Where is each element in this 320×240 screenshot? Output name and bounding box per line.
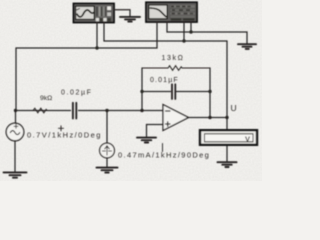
ground (scope) — [120, 17, 140, 22]
wire bus A (input node bus) — [16, 22, 157, 48]
wire scope channel B down — [103, 23, 105, 42]
ground (voltmeter) — [218, 162, 237, 167]
ground (V1) — [4, 172, 27, 177]
svg-text:0.47mA/1kHz/90Deg: 0.47mA/1kHz/90Deg — [118, 151, 210, 160]
wire left column down — [15, 48, 17, 111]
ground (op-amp plus input) — [137, 138, 156, 143]
wire main input row — [16, 110, 164, 112]
svg-text:0.01µF: 0.01µF — [150, 77, 179, 84]
wire feedback right column — [209, 68, 211, 118]
wire scope channel A down — [96, 23, 98, 49]
ground (top right) — [238, 44, 256, 49]
wire output column (node U) — [226, 41, 228, 131]
resistor R1 9k zigzag — [33, 108, 47, 113]
wire V1 to ground — [14, 141, 16, 172]
wire bode OUT- drop — [190, 22, 192, 32]
wire feedback left column — [141, 68, 143, 111]
wire to current source I1 — [106, 111, 108, 144]
node junction (output to voltmeter) — [225, 116, 228, 119]
resistor R2 13k zigzag (feedback top branch) — [142, 66, 210, 71]
capacitor C2 0.01uF plates — [172, 84, 175, 99]
node junction (scope A on bus A) — [95, 46, 98, 49]
node junction (feedback left on input wire) — [140, 109, 143, 112]
svg-text:V: V — [245, 135, 250, 144]
plus mark near label — [59, 126, 64, 131]
wire op-amp plus input — [147, 124, 164, 126]
wire I1 to ground — [106, 158, 108, 167]
oscilloscope XSC1 — [74, 4, 115, 23]
voltmeter — [200, 130, 257, 145]
bode plotter XBP1 — [146, 2, 197, 22]
capacitor C1 0.02uF plates — [73, 103, 76, 119]
wire to voltage source V1 — [15, 111, 17, 124]
node junction (current source tap) — [105, 109, 108, 112]
node junction (bode OUT+ on bus B) — [182, 39, 185, 42]
wire scope right to ground — [114, 10, 130, 16]
svg-text:13kΩ: 13kΩ — [162, 55, 185, 62]
wire feedback bottom branch — [142, 91, 210, 93]
node junction (feedback left bottom) — [140, 90, 143, 93]
voltage source V1 circle — [6, 123, 24, 141]
wire bode IN- to ground bus — [167, 22, 247, 44]
node junction (feedback right on output wire) — [208, 116, 211, 119]
node junction (feedback right bottom) — [208, 90, 211, 93]
wire bode OUT+ drop — [183, 22, 185, 41]
svg-text:9kΩ: 9kΩ — [40, 95, 52, 102]
ground (I1) — [97, 168, 118, 173]
wire plus input to ground — [146, 125, 148, 137]
current source I1 circle — [100, 143, 115, 158]
svg-text:0.02µF: 0.02µF — [61, 90, 93, 97]
wire bus B to output column — [104, 40, 227, 42]
tick below op-amp — [162, 144, 164, 152]
svg-text:0.7V/1kHz/0Deg: 0.7V/1kHz/0Deg — [27, 131, 102, 140]
svg-text:U: U — [231, 103, 237, 113]
op-amp U1 — [163, 105, 189, 131]
wire op-amp output — [189, 117, 228, 119]
node junction (bode OUT- on ground bus) — [189, 30, 192, 33]
node junction (input node left) — [14, 109, 17, 112]
